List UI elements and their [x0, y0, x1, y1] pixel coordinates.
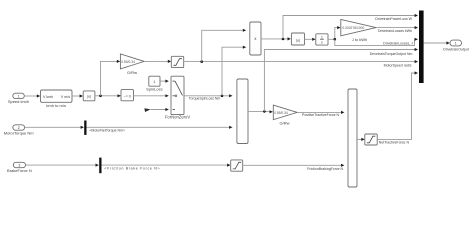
- node junction speed line: [99, 95, 102, 98]
- switch ForNonZeroV: [165, 76, 191, 119]
- wire product to abs2: [261, 37, 291, 40]
- wire Add3 to saturation2: [357, 138, 365, 141]
- svg-text:G/Rw: G/Rw: [280, 121, 290, 126]
- abs block 2 |u|: [291, 33, 304, 45]
- svg-text:Speed km/h: Speed km/h: [8, 99, 29, 104]
- svg-text:MotorSpeed rad/s: MotorSpeed rad/s: [384, 63, 412, 67]
- svg-text:1: 1: [455, 42, 457, 46]
- svg-text:1: 1: [153, 80, 155, 84]
- wire gain to saturation1: [144, 60, 171, 63]
- inport 1 Speed km/h: [8, 93, 29, 104]
- abs block |u|: [83, 91, 95, 101]
- svg-text:NetTractiveForce N: NetTractiveForce N: [379, 141, 410, 145]
- svg-text:kmh to m/s: kmh to m/s: [46, 103, 66, 108]
- wire gain3 to bus DrivetrainLosses kWh: [376, 26, 418, 33]
- wire junction to bus DrivetrainLosses J: [335, 38, 418, 46]
- add block Add3 (tractive minus braking force): [348, 89, 357, 187]
- node junction drivetrain torque: [263, 110, 266, 113]
- wire compare to switch control: [134, 94, 169, 97]
- svg-text:~= 0: ~= 0: [124, 94, 131, 98]
- bus creator: [419, 11, 424, 84]
- wire kmh-to-m/s to abs: [72, 94, 83, 97]
- wire saturation3 to Add3 input 2 (FrictionBrakingForce N): [243, 164, 345, 171]
- svg-text:DrivetrainLosses, J: DrivetrainLosses, J: [383, 41, 413, 45]
- wire junction up to product input 1: [202, 29, 247, 62]
- wire inport1 to kmh-to-m/s: [24, 94, 40, 97]
- wire bus creator to outport: [424, 41, 450, 44]
- wire abs to compare-to-zero: [95, 94, 121, 97]
- svg-text:DrivetrainTorqueOutput Nm: DrivetrainTorqueOutput Nm: [370, 52, 413, 56]
- svg-text:V m/s: V m/s: [61, 95, 70, 99]
- wire inport3 to selection tag 2: [26, 164, 99, 167]
- wire tag to Add2 input 2: [87, 126, 233, 129]
- svg-text:G/Rw: G/Rw: [127, 70, 137, 75]
- wire inport2 to selection tag: [25, 126, 84, 129]
- svg-text:|u|: |u|: [87, 95, 91, 99]
- wire switch output TorqueSpinLoss Nm to Add2: [184, 94, 233, 100]
- wire tag2 to saturation3: [102, 164, 231, 167]
- inport 2 MotorTorque Nm: [4, 125, 34, 136]
- wire integrator to gain J-to-kWh: [328, 26, 341, 39]
- svg-text:1: 1: [321, 35, 323, 39]
- svg-text:<Friction Brake Force N>: <Friction Brake Force N>: [104, 166, 160, 170]
- wire saturation2 to bus (NetTractiveForce N): [377, 71, 418, 144]
- node junction motorspeed: [200, 60, 203, 63]
- wire constant to switch input 1: [160, 80, 169, 83]
- wire saturation1 to bus (MotorSpeed rad/s): [184, 60, 418, 67]
- saturation block (motor speed limit): [171, 56, 183, 67]
- product block (power loss = torque x speed): [250, 22, 261, 55]
- node junction losses J: [334, 38, 337, 41]
- node junction torquespinloss: [221, 95, 224, 98]
- gain G/Rw 2 (torque to tractive force): [273, 105, 297, 126]
- signal tag bar MotorNetTorque Nm: [84, 121, 125, 135]
- wire Add2 output to gain G/Rw 2: [248, 110, 273, 113]
- svg-text:DrivetrainLosses kWh: DrivetrainLosses kWh: [378, 29, 412, 33]
- svg-text:FrictionBrakingForce N: FrictionBrakingForce N: [307, 167, 343, 171]
- svg-text:DrivetrainOutput: DrivetrainOutput: [443, 48, 469, 52]
- inport 3 BrakeForce N: [7, 162, 32, 173]
- svg-text:s: s: [321, 41, 323, 45]
- wire gain2 to Add3 input 1 (PositiveTractiveForce N): [297, 111, 344, 117]
- svg-text:0.000278/1000: 0.000278/1000: [342, 26, 364, 30]
- svg-text:2: 2: [18, 126, 20, 130]
- wire junction up to bus DrivetrainPowerLoss W: [283, 14, 418, 39]
- constant SpinLoss = 1: [146, 76, 162, 91]
- ground: [144, 108, 150, 112]
- svg-text:V kmh: V kmh: [43, 95, 53, 99]
- svg-text:ForNonZeroV: ForNonZeroV: [165, 115, 191, 120]
- svg-text:0.55/0.34: 0.55/0.34: [121, 60, 135, 64]
- add block Add2 (net torque minus spin loss): [237, 79, 248, 144]
- svg-text:SpinLoss: SpinLoss: [146, 87, 162, 92]
- svg-text:3: 3: [18, 164, 20, 168]
- gain G/Rw (speed to motor speed): [120, 54, 144, 75]
- integrator 1/s: [316, 34, 328, 45]
- svg-text:BrakeForce N: BrakeForce N: [7, 168, 32, 173]
- subsystem kmh to m/s: [41, 90, 73, 108]
- svg-text:PositiveTractiveForce N: PositiveTractiveForce N: [302, 113, 339, 117]
- gain J to kWh: [341, 19, 376, 42]
- svg-text:DrivetrainPowerLoss W: DrivetrainPowerLoss W: [375, 17, 412, 21]
- svg-text:0.55/0.34: 0.55/0.34: [274, 111, 288, 115]
- wire abs2 to integrator: [305, 38, 316, 41]
- compare block ~= 0: [121, 90, 134, 101]
- svg-text:|u|: |u|: [296, 39, 300, 43]
- signal tag bar Friction Brake Force N: [99, 158, 160, 174]
- wire junction up to bus DrivetrainTorqueOutput Nm: [264, 48, 418, 112]
- node junction power loss: [282, 38, 285, 41]
- svg-text:<MotorNetTorque Nm>: <MotorNetTorque Nm>: [89, 129, 125, 133]
- wire junction up to gain G/Rw: [101, 60, 121, 96]
- svg-text:J to kWh: J to kWh: [352, 37, 368, 42]
- wire junction up to product input 2: [222, 46, 246, 96]
- outport 1 DrivetrainOutput: [443, 40, 469, 51]
- svg-text:TorqueSpinLoss Nm: TorqueSpinLoss Nm: [189, 97, 221, 101]
- svg-text:MotorTorque Nm: MotorTorque Nm: [4, 131, 34, 136]
- saturation block NetTractiveForce: [365, 134, 377, 145]
- wire ground to switch input 3: [151, 108, 169, 111]
- saturation block (brake force limit): [231, 160, 243, 171]
